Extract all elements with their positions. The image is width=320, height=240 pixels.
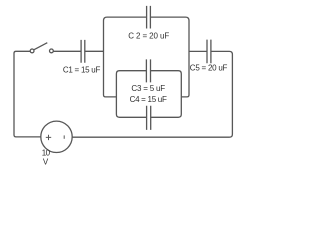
wire node B to C5 bbox=[189, 50, 207, 52]
svg-text:C 2 = 20 uF: C 2 = 20 uF bbox=[128, 31, 169, 40]
svg-text:V: V bbox=[43, 157, 49, 166]
inner box right half bbox=[151, 71, 182, 118]
capacitor C3 plates bbox=[146, 59, 150, 82]
voltage source plus sign bbox=[46, 135, 51, 140]
svg-text:C1 = 15 uF: C1 = 15 uF bbox=[63, 65, 101, 74]
capacitor C5 plates bbox=[207, 40, 211, 64]
svg-text:C3 = 5 uF: C3 = 5 uF bbox=[131, 84, 165, 93]
wire left loop: source left to bottom-left corner, up left side, to switch bbox=[14, 51, 41, 137]
voltage source minus tick bbox=[63, 135, 65, 138]
inner box left half (top edge left part, left edge, bottom edge left part) bbox=[116, 71, 146, 118]
capacitor C2 plates bbox=[147, 6, 151, 29]
node A / middle box left edge + stub to inner box bbox=[104, 17, 147, 97]
capacitor C4 plates bbox=[147, 106, 151, 130]
wire C1 to node A bbox=[85, 50, 104, 52]
switch S1 blade bbox=[34, 43, 48, 50]
svg-text:10: 10 bbox=[42, 148, 51, 157]
switch S1 contact circle right bbox=[50, 49, 54, 53]
switch S1 contact circle left bbox=[30, 49, 34, 53]
svg-text:C4 = 15 uF: C4 = 15 uF bbox=[130, 95, 167, 104]
wire switch to C1 bbox=[53, 50, 81, 52]
voltage source V1 circle bbox=[41, 121, 72, 152]
capacitor C1 plates bbox=[81, 40, 85, 63]
middle box top-right + right edge + stub to inner box bbox=[150, 17, 189, 97]
svg-text:C5 = 20 uF: C5 = 20 uF bbox=[190, 64, 228, 73]
wire C5 right, down right side, bottom wire to source bbox=[72, 51, 232, 137]
